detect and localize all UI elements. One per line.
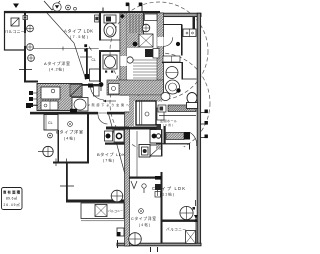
dimension ticks bottom [150,247,152,252]
stair circle 1 [142,24,150,32]
C balcony triangles [194,215,198,219]
B wall dark box [70,109,77,113]
stair treads horizontal [133,60,157,78]
B closet [44,115,58,131]
dashed tree circle upper right [110,2,208,100]
pole symbol right 2 [200,123,206,125]
C bedroom AC box [117,228,124,236]
svg-text:Aタイプ洋室: Aタイプ洋室 [44,60,70,66]
C wall L mark [195,200,197,206]
small box on balcony wall [23,16,28,20]
window tick B2 [60,185,74,187]
B/C divider hatched wall [125,112,130,246]
washbasin A [103,55,117,69]
window tick A [19,69,32,71]
A entrance dot [176,42,180,46]
A partition wall end blob [85,74,89,79]
C entrance door arc [190,133,197,147]
svg-text:Bタイプ LDK: Bタイプ LDK [97,151,125,157]
C washer circle [166,80,180,94]
stair core right hatched strip [157,13,164,95]
B LDK left wall [66,163,68,201]
svg-text:CL: CL [92,58,96,62]
toilet A bowl [104,23,116,37]
svg-text:Aタイプ LDK: Aタイプ LDK [64,28,93,35]
pipe square 1 [29,91,33,95]
C bath hatched left strip [129,101,134,127]
stair top white box [145,14,158,21]
C entrance bottom wall line [156,143,190,144]
B bedroom walls [58,130,60,163]
B kitchen counter edge [105,143,129,145]
fan circle A3 [28,55,35,62]
C entrance black cabinet [184,132,190,140]
svg-text:89.6㎡: 89.6㎡ [6,196,18,201]
C balcony outline [162,222,197,244]
corridor black bar [88,84,93,88]
B bedroom marker [68,122,73,127]
kitchen wall B/C horizontal [106,127,161,130]
corridor door leaf [94,86,100,96]
svg-text:(4帖): (4帖) [139,222,150,227]
C dimension V mark [131,181,137,189]
C bath unit box [136,101,156,125]
pole symbol right 1 [200,112,206,114]
C entrance line [159,115,196,117]
fan circle C LDK [180,206,193,219]
C balcony washer [186,231,196,244]
svg-text:玄関ホール: 玄関ホール [160,118,177,123]
A bedroom partition wall [86,48,88,74]
door gap in right hatched wall [157,37,163,46]
stair core left hatched strip [120,13,127,95]
C entrance inner wall [164,126,166,144]
window tick B1 [55,159,57,167]
stair core outline [120,13,164,95]
A entrance inner wall [163,24,182,26]
A entrance closet [183,29,196,37]
fan circle B LDK [111,190,123,202]
mask dashed circle over C corridor [138,147,184,176]
fan circle B big [43,146,53,156]
C washroom wall [162,62,183,64]
svg-text:CL: CL [48,121,53,125]
balcony A outline [5,12,26,51]
svg-text:Cタイプ洋室: Cタイプ洋室 [131,216,156,221]
B kitchen vent triangle [118,128,122,131]
legend box [2,188,23,210]
right outer wall [197,13,200,245]
B balcony washer [95,205,107,217]
A entrance corner wall stub [193,17,196,30]
svg-text:(4.2帖): (4.2帖) [49,67,64,72]
B LDK bottom wall [66,200,124,203]
tiny circle on top wall [74,7,77,10]
svg-text:専有面積: 専有面積 [3,190,21,195]
top main wall [4,11,160,13]
leader diagonal A [47,13,86,80]
toilet C bowl [187,93,197,104]
C bath side box [157,108,164,120]
toilet A tank [104,15,116,23]
svg-text:(11帖): (11帖) [160,192,174,197]
C bath hatched top strip [129,96,162,102]
C washer icon box [139,145,150,158]
corridor pole symbol [100,84,102,91]
balcony A hatch square [11,18,19,26]
fan circle C bedroom [129,233,142,246]
washbasin B [72,98,88,112]
fan circle B small [48,133,53,138]
bath diag block [70,85,82,97]
vent stub above wall [102,8,104,12]
leader diagonal B [108,112,126,178]
door gap in left hatched strip [120,56,126,66]
B entry door gap [98,112,107,115]
bottom outer wall [117,243,201,246]
left building wall below balcony [24,11,26,82]
C corridor door leaf line [136,131,138,177]
stair core mid-left hatched block [127,33,140,48]
B kitchen sink box [105,131,113,141]
bath counter [41,101,58,110]
C door handle circle [142,184,146,188]
corridor door arc [91,86,105,100]
svg-text:(4帖): (4帖) [64,136,75,141]
C washroom counter boxes [163,56,180,62]
B balcony outline [81,203,124,219]
B bedroom bottom wall [53,162,89,164]
small vent circle top [66,5,71,10]
C kitchen counter marks [155,184,161,190]
svg-text:(7.5帖): (7.5帖) [70,34,88,39]
white box in hatch extension [109,84,120,95]
A closet box [90,69,101,81]
svg-text:2階廊下より玄関へ: 2階廊下より玄関へ [88,102,129,107]
C wall horizontal corridor [129,177,161,179]
toilet C tank [187,103,198,109]
diamond mark on wall [120,14,125,19]
B kitchen stove box [114,130,124,142]
C small dark box [157,124,162,130]
B entry door arc [98,115,108,125]
A kitchen wall vertical [99,13,101,82]
stair washer box [139,34,153,47]
balcony window lines [24,33,25,46]
C entrance small boxes [158,105,166,112]
bathtub [41,87,60,99]
C bedroom marker [139,209,144,214]
pipe square 3 [29,103,33,107]
svg-text:(7帖): (7帖) [103,158,114,163]
stair dark blob [133,42,138,47]
svg-text:26.49㎡: 26.49㎡ [4,202,21,207]
svg-text:バルコニー: バルコニー [108,209,123,213]
corridor arrow [103,100,116,102]
pipe square 2 [29,97,33,101]
stair core top hatched block [127,13,144,33]
dimension line A room [33,48,99,50]
svg-text:バルコニー: バルコニー [166,228,186,232]
C black dot [176,88,180,92]
C entrance hatched counter [168,105,196,112]
stair lower white box [153,49,159,59]
C kitchen boxes right edge [161,130,163,156]
svg-text:バルコニー: バルコニー [5,29,25,34]
stair lower dark box [145,49,153,57]
C entrance corner hatch [156,145,161,150]
stair circle 2 [127,57,133,63]
B unit top wall [30,112,133,115]
C kitchen stove box [150,130,162,144]
north triangle marker top-left [13,4,19,9]
pole symbol above wall 2 [141,3,143,11]
C washbasin circle [166,67,178,79]
C sink box [150,145,162,156]
corridor wall top [82,84,100,86]
C small toilet oval [161,93,170,101]
washroom A top wall [99,50,120,52]
B wall end cap [26,103,31,108]
small box left of wall [95,15,100,22]
roof vent flag symbol top [44,1,60,10]
svg-text:Bタイプ洋室: Bタイプ洋室 [56,129,83,135]
pole symbol above wall 1 [128,3,130,11]
C entrance hatched sill [166,133,184,140]
stair mid rail [143,13,145,47]
mask dashed circles over left/middle rooms [25,13,101,213]
fan circle A2 [27,44,34,51]
top right wall [160,13,201,16]
C wall vertical LDK/bedroom [161,172,163,243]
dashed tree circle lower right [110,53,210,153]
stair treads vertical [130,14,142,33]
wall corner to bath [24,81,38,83]
fan circle A1 [27,25,34,32]
stair core bottom hatched band [107,80,164,95]
pole symbol right 3 [200,137,206,139]
bath unit A/B hatched block [37,84,82,111]
C balcony top wall [161,220,197,222]
toilet A room bottom line [101,39,120,41]
